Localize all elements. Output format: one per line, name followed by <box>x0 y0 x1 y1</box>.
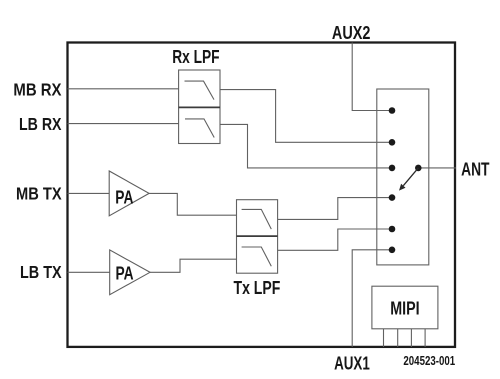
svg-text:MB TX: MB TX <box>16 184 62 204</box>
svg-text:ANT: ANT <box>461 159 489 179</box>
svg-text:LB TX: LB TX <box>20 262 62 282</box>
svg-text:MB RX: MB RX <box>13 79 61 99</box>
svg-text:LB RX: LB RX <box>19 114 62 134</box>
svg-text:AUX2: AUX2 <box>332 23 371 43</box>
svg-text:204523-001: 204523-001 <box>403 354 455 368</box>
svg-text:Tx LPF: Tx LPF <box>234 278 281 298</box>
svg-text:AUX1: AUX1 <box>334 354 370 374</box>
svg-text:MIPI: MIPI <box>390 299 419 319</box>
svg-text:PA: PA <box>116 262 134 283</box>
svg-text:PA: PA <box>115 187 133 208</box>
svg-text:Rx LPF: Rx LPF <box>172 47 219 67</box>
